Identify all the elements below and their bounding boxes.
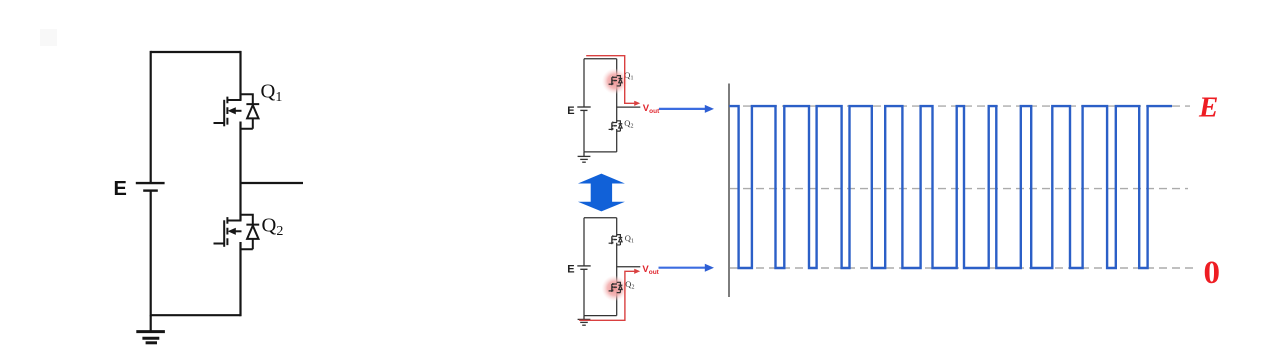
mini circuit A: bottom bus wire: [584, 151, 617, 153]
mini circuit B: top bus wire: [584, 217, 617, 219]
blue double arrow (toggle between states): [578, 174, 625, 212]
dashed level line 0: [730, 267, 1195, 269]
wire: top bus (battery + to Q1 drain): [151, 51, 241, 53]
mini circuit B: highlight glow on Q2: [602, 275, 628, 301]
mini circuit B: ground: [578, 316, 591, 326]
wire: output stub (midpoint node): [241, 182, 304, 184]
mini circuit B: red current path through Q2: [579, 271, 635, 320]
wire: left column lower (battery - to bottom bus): [150, 191, 152, 317]
PWM waveform trace: [729, 106, 1172, 268]
mini circuit A: blue arrow to waveform: [659, 108, 706, 110]
faint watermark box: [40, 29, 57, 46]
mini circuit B: bottom bus wire: [584, 315, 617, 317]
wire: left column upper (to battery +): [150, 51, 152, 182]
mini circuit B: left column wires: [583, 218, 585, 316]
mini circuit A: red arrowhead: [634, 101, 640, 106]
wire: output node to Q2 drain: [239, 183, 241, 221]
mini circuit B: transistor Q1: [609, 235, 623, 245]
mini circuit B: output wire: [617, 266, 641, 268]
wire: Q2 source to bottom bus: [239, 242, 241, 316]
transistor Q1: [214, 94, 260, 129]
mini circuit B: transistor Q2: [609, 282, 623, 292]
mini circuit A: transistor Q1: [609, 76, 623, 86]
mini circuit A: left column wires: [583, 59, 585, 152]
svg-text:E: E: [1198, 92, 1218, 124]
svg-text:E: E: [114, 178, 127, 200]
mini circuit A: ground: [578, 152, 591, 162]
svg-text:0: 0: [1204, 255, 1221, 291]
wire: bottom bus (Q2 source to ground node): [151, 314, 241, 316]
mini circuit A: top bus wire: [584, 58, 617, 60]
mini circuit A: highlight glow on Q1: [602, 68, 628, 94]
mini circuit A: right column wires: [616, 59, 618, 152]
mini circuit B: red arrowhead: [634, 269, 640, 274]
wire: Q1 drain riser: [239, 51, 241, 100]
dashed level line mid: [730, 188, 1188, 190]
wire: Q1 source to output node: [239, 122, 241, 184]
dashed level line E: [730, 105, 1190, 107]
battery E: [136, 183, 165, 191]
mini circuit B: right column wires: [616, 218, 618, 316]
svg-text:E: E: [567, 264, 574, 276]
mini circuit A: transistor Q2: [609, 121, 623, 131]
svg-text:E: E: [567, 105, 574, 117]
mini circuit B: blue arrow to waveform: [659, 267, 707, 269]
ground: [136, 315, 165, 343]
transistor Q2: [214, 215, 260, 250]
mini circuit A: red current path through Q1: [586, 56, 635, 104]
mini circuit A: output wire: [617, 106, 641, 108]
mini circuit B: battery E plates: [577, 266, 590, 269]
mini circuit A: battery E plates: [577, 107, 590, 110]
waveform vertical axis: [728, 84, 730, 298]
